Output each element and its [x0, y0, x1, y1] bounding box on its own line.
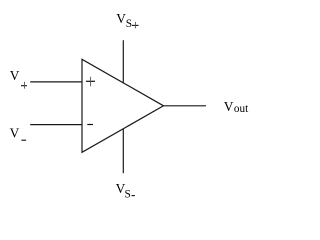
plus symbol (non-inverting input marker)	[86, 77, 95, 87]
label Vout (output net)	[224, 99, 249, 115]
label VS- (negative supply net)	[116, 181, 135, 201]
label VS+ (positive supply net)	[116, 11, 138, 30]
svg-text:out: out	[234, 103, 249, 115]
wire: V- input	[30, 124, 82, 126]
svg-text:V: V	[10, 125, 20, 140]
op-amp U1	[0, 0, 258, 221]
label V- (inverting input net)	[10, 125, 27, 140]
wire: negative supply VS-	[122, 129, 124, 174]
svg-text:V: V	[10, 68, 20, 83]
wire: V+ input	[30, 81, 82, 83]
wire: output	[164, 105, 207, 107]
label V+ (non-inverting input net)	[10, 68, 27, 88]
op-amp triangle body	[82, 59, 164, 152]
wire: positive supply VS+	[122, 40, 124, 83]
svg-text:S: S	[126, 18, 132, 30]
svg-text:V: V	[224, 99, 234, 114]
minus symbol (inverting input marker)	[87, 124, 93, 126]
svg-text:S: S	[125, 188, 131, 200]
